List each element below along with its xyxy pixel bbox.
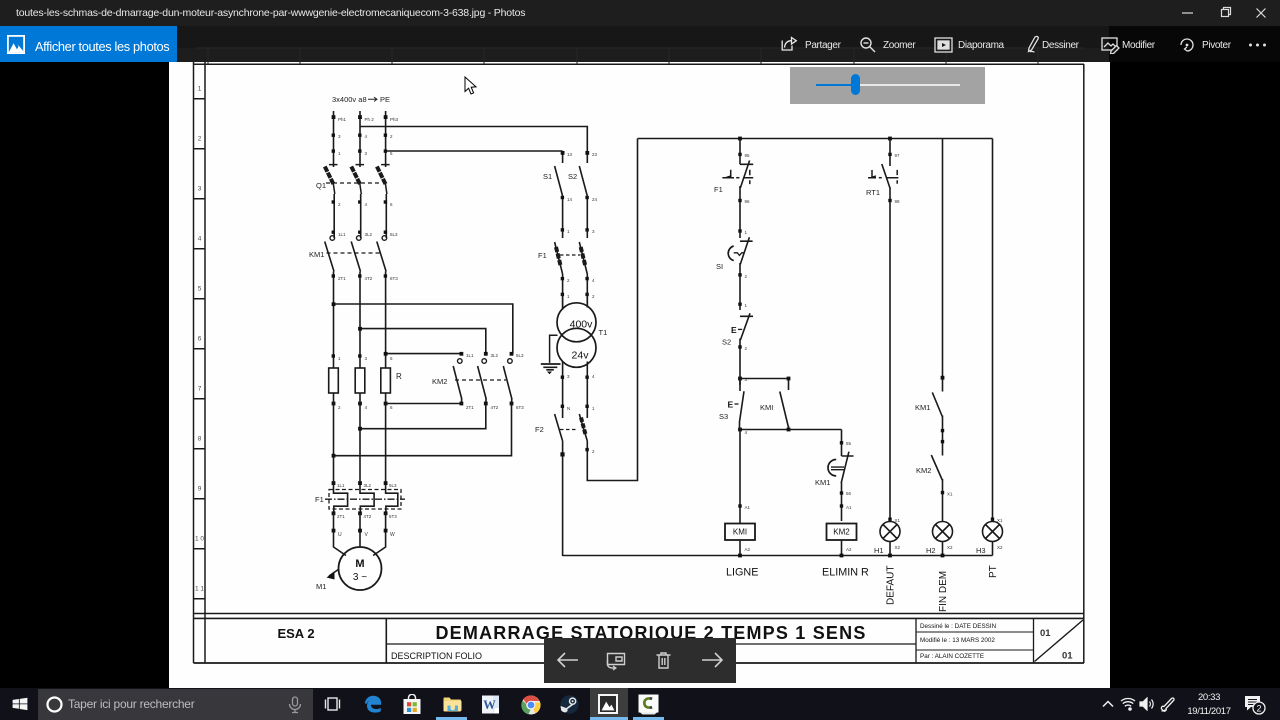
wire: L2 junction to KM2 pole2 top — [360, 329, 486, 354]
contactor KM2 (bypass poles) — [453, 359, 512, 404]
svg-text:1 0: 1 0 — [195, 536, 204, 543]
svg-text:H1: H1 — [874, 546, 884, 555]
svg-text:2: 2 — [745, 274, 748, 279]
svg-text:2T1: 2T1 — [338, 276, 346, 281]
svg-text:X1: X1 — [895, 518, 901, 523]
svg-text:3L2: 3L2 — [491, 353, 499, 358]
svg-text:4T2: 4T2 — [364, 514, 372, 519]
svg-text:4: 4 — [592, 374, 595, 379]
svg-text:3: 3 — [338, 134, 341, 139]
svg-text:5L3: 5L3 — [390, 232, 398, 237]
svg-text:6: 6 — [390, 202, 393, 207]
Store — [402, 694, 422, 715]
svg-text:ELIMIN R: ELIMIN R — [822, 567, 869, 579]
svg-text:RT1: RT1 — [866, 188, 880, 197]
svg-text:S1: S1 — [543, 172, 552, 181]
svg-text:M: M — [355, 558, 364, 570]
node supply label 3x400v a8-PE — [332, 95, 390, 104]
svg-text:W: W — [483, 698, 496, 712]
svg-text:DESCRIPTION FOLIO: DESCRIPTION FOLIO — [391, 651, 482, 661]
svg-text:KM2: KM2 — [432, 377, 447, 386]
svg-text:Q1: Q1 — [316, 181, 326, 190]
svg-text:1: 1 — [745, 230, 748, 235]
svg-text:X1: X1 — [947, 492, 953, 497]
wire: KM2 pole3 bottom loop — [334, 404, 512, 456]
svg-text:F1: F1 — [538, 251, 547, 260]
frame top line — [194, 63, 1085, 65]
contact RT1 (NC) — [868, 139, 898, 522]
fuse F2 (control, 2-pole) — [555, 139, 638, 557]
contact KM1 (NO, FIN DEM column) — [932, 139, 942, 456]
svg-text:1: 1 — [567, 294, 570, 299]
svg-text:A1: A1 — [745, 505, 751, 510]
ground PE arrow at motor — [327, 569, 340, 580]
svg-text:3: 3 — [365, 356, 368, 361]
svg-text:Ph 2: Ph 2 — [365, 117, 375, 122]
svg-text:24: 24 — [592, 197, 598, 202]
svg-text:F1: F1 — [315, 495, 324, 504]
wire: L3 junction to KM2 pole1 top — [386, 353, 462, 355]
svg-text:F1: F1 — [714, 185, 723, 194]
svg-text:SI: SI — [716, 262, 723, 271]
svg-text:3: 3 — [198, 186, 202, 193]
svg-text:X2: X2 — [895, 545, 901, 550]
frame right border — [1083, 64, 1085, 663]
relay F1 thermal overload — [325, 483, 405, 513]
lamp H1 (DEFAUT) — [880, 522, 900, 556]
svg-text:2: 2 — [338, 202, 341, 207]
svg-text:H2: H2 — [926, 546, 936, 555]
zoom slider flyout — [790, 67, 985, 104]
svg-text:S2: S2 — [568, 172, 577, 181]
svg-text:4T2: 4T2 — [491, 405, 499, 410]
svg-text:2T1: 2T1 — [337, 514, 345, 519]
svg-text:DEFAUT: DEFAUT — [886, 566, 897, 605]
svg-text:24v: 24v — [572, 350, 590, 362]
svg-text:W: W — [390, 532, 395, 538]
svg-text:3L2: 3L2 — [364, 483, 372, 488]
svg-text:Modifié le : 13 MARS 2002: Modifié le : 13 MARS 2002 — [920, 637, 995, 644]
svg-text:1: 1 — [567, 229, 570, 234]
svg-text:2: 2 — [745, 346, 748, 351]
button SI (stop, NC) — [728, 237, 752, 310]
wire A: phase L3 to S1 column — [386, 150, 563, 152]
svg-text:5: 5 — [390, 356, 393, 361]
svg-text:6T3: 6T3 — [390, 276, 398, 281]
contact KM1 (self-hold, NO) — [780, 392, 789, 430]
svg-text:9: 9 — [198, 486, 202, 493]
clock — [1184, 691, 1234, 717]
faint photo visible through translucent app bar — [0, 26, 1109, 62]
svg-text:1 1: 1 1 — [195, 586, 204, 593]
svg-text:E: E — [728, 400, 734, 410]
transformer T1 400v/24v — [557, 294, 596, 418]
frame left border — [194, 62, 206, 663]
svg-text:23: 23 — [592, 152, 598, 157]
svg-text:400v: 400v — [570, 319, 594, 331]
svg-text:KM1: KM1 — [915, 403, 930, 412]
tray wifi — [1120, 697, 1136, 711]
svg-text:4: 4 — [198, 236, 202, 243]
frame row numbers — [195, 86, 204, 593]
svg-text:A2: A2 — [745, 547, 751, 552]
svg-text:KMI: KMI — [760, 403, 773, 412]
wire: KM2 pole1 bottom to R3 bottom — [334, 404, 512, 456]
app bar commands — [0, 0, 1, 1]
coil KM1 — [725, 430, 755, 556]
svg-text:N: N — [567, 406, 570, 411]
svg-text:F2: F2 — [535, 425, 544, 434]
svg-text:KM1: KM1 — [815, 478, 830, 487]
svg-text:4: 4 — [592, 278, 595, 283]
svg-text:4: 4 — [365, 405, 368, 410]
Edge — [364, 695, 382, 713]
ground (transformer shield) — [541, 335, 561, 374]
svg-text:01: 01 — [1040, 628, 1051, 639]
svg-text:55: 55 — [846, 441, 852, 446]
switch S1 (aux, left column) — [555, 153, 563, 230]
contact KM1 (timed, to KM2 coil) — [828, 430, 853, 522]
frame row ticks — [194, 99, 206, 599]
svg-text:1: 1 — [198, 86, 202, 93]
svg-text:KMI: KMI — [733, 528, 747, 537]
svg-text:5: 5 — [198, 286, 202, 293]
svg-text:A1: A1 — [846, 505, 852, 510]
svg-text:Ph1: Ph1 — [338, 117, 347, 122]
svg-text:KM1: KM1 — [309, 250, 324, 259]
svg-text:2: 2 — [592, 294, 595, 299]
svg-text:01: 01 — [1062, 651, 1073, 662]
svg-text:8: 8 — [198, 436, 202, 443]
svg-text:6T3: 6T3 — [389, 514, 397, 519]
contactor KM1 (power poles) — [325, 236, 387, 368]
svg-text:95: 95 — [745, 153, 751, 158]
svg-text:E: E — [731, 325, 737, 335]
svg-text:7: 7 — [198, 386, 202, 393]
svg-text:H3: H3 — [976, 546, 986, 555]
Photos (active) — [590, 688, 628, 720]
svg-text:2: 2 — [567, 278, 570, 283]
svg-text:1L1: 1L1 — [466, 353, 474, 358]
svg-text:M1: M1 — [316, 582, 326, 591]
svg-text:1: 1 — [338, 356, 341, 361]
svg-text:PE: PE — [380, 95, 390, 104]
svg-text:S2: S2 — [722, 338, 731, 347]
svg-text:3: 3 — [567, 374, 570, 379]
svg-text:56: 56 — [846, 491, 852, 496]
svg-text:T1: T1 — [599, 328, 608, 337]
svg-text:2T1: 2T1 — [466, 405, 474, 410]
coil KM2 — [827, 524, 857, 556]
motor M1 3~ — [334, 536, 386, 590]
svg-text:3: 3 — [365, 151, 368, 156]
frame column ticks — [208, 62, 1038, 64]
breaker Q1 — [325, 165, 390, 238]
wire: L1 junction to KM2 pole3 top — [334, 304, 513, 354]
button S2 (NC with E mark) — [738, 313, 753, 385]
svg-text:1: 1 — [745, 303, 748, 308]
task view — [324, 697, 341, 711]
svg-text:4: 4 — [365, 134, 368, 139]
svg-text:1: 1 — [592, 406, 595, 411]
wire S3/KM1 parallel branch — [740, 379, 842, 430]
svg-text:4: 4 — [365, 202, 368, 207]
node junction dots — [332, 302, 388, 355]
svg-text:U: U — [338, 532, 342, 538]
svg-text:6T3: 6T3 — [516, 405, 524, 410]
svg-text:5L3: 5L3 — [516, 353, 524, 358]
wire phase L3 vertical top — [385, 111, 387, 167]
svg-text:PT: PT — [988, 565, 999, 578]
svg-text:R: R — [396, 372, 402, 381]
bottom navigation overlay — [544, 638, 736, 683]
resistor R bank (3 phases) — [329, 368, 391, 393]
svg-text:KM2: KM2 — [833, 528, 850, 537]
svg-text:3: 3 — [592, 229, 595, 234]
svg-text:2: 2 — [338, 405, 341, 410]
svg-text:V: V — [365, 532, 369, 538]
lamp H3 (PT) — [983, 139, 1003, 556]
wire top bus of control loop — [563, 139, 993, 556]
Camtasia — [633, 717, 664, 720]
tray speaker — [1139, 697, 1155, 711]
svg-text:5L3: 5L3 — [389, 483, 397, 488]
wire bottom bus of control loop — [563, 555, 993, 557]
svg-text:Dessiné le : DATE DESSIN: Dessiné le : DATE DESSIN — [920, 623, 997, 630]
fuse F1 (control, 2-pole) — [555, 230, 588, 294]
svg-text:2: 2 — [1256, 704, 1261, 714]
Steam — [560, 695, 579, 714]
svg-text:X2: X2 — [997, 545, 1003, 550]
svg-text:2: 2 — [592, 449, 595, 454]
wire phase L2 vertical top — [359, 111, 361, 167]
svg-text:X2: X2 — [947, 545, 953, 550]
wire: KM2 pole2 bottom loop — [360, 404, 486, 429]
contact F1 (thermal relay trip, NC) — [722, 139, 753, 239]
svg-text:6: 6 — [390, 405, 393, 410]
button S3 (start, NO with E mark) — [735, 379, 745, 430]
svg-text:LIGNE: LIGNE — [726, 567, 758, 579]
wire F1 to motor terminals — [334, 513, 386, 536]
svg-text:3 ~: 3 ~ — [353, 572, 367, 583]
svg-text:98: 98 — [895, 199, 901, 204]
svg-text:Par : ALAIN COZETTE: Par : ALAIN COZETTE — [920, 653, 984, 660]
svg-text:FIN DEM: FIN DEM — [938, 571, 949, 612]
Word — [481, 695, 500, 714]
svg-text:2: 2 — [198, 136, 202, 143]
svg-text:Ph3: Ph3 — [390, 117, 399, 122]
tray chevron — [1101, 699, 1115, 709]
svg-text:4T2: 4T2 — [365, 276, 373, 281]
action center — [1244, 695, 1266, 715]
node terminals Ph1 Ph2 Ph3 — [332, 115, 388, 153]
svg-text:97: 97 — [895, 153, 901, 158]
svg-text:3L2: 3L2 — [365, 232, 373, 237]
svg-text:1: 1 — [338, 151, 341, 156]
svg-text:4: 4 — [745, 430, 748, 435]
wire B: phase L2 to S2 column — [360, 127, 587, 152]
svg-text:6: 6 — [198, 336, 202, 343]
svg-text:2: 2 — [390, 134, 393, 139]
mouse cursor — [464, 76, 478, 96]
lamp H2 (FIN DEM) — [933, 522, 953, 556]
svg-text:1L1: 1L1 — [338, 232, 346, 237]
svg-text:96: 96 — [745, 199, 751, 204]
contact KM2 (NC, FIN DEM column) — [931, 455, 942, 521]
svg-text:14: 14 — [567, 197, 573, 202]
switch S2 (aux, right column) — [579, 153, 587, 230]
tray pen — [1160, 696, 1175, 712]
svg-text:13: 13 — [567, 152, 573, 157]
Chrome — [521, 695, 541, 715]
File Explorer — [443, 696, 462, 712]
wire phase L1 vertical top — [333, 111, 335, 167]
svg-text:S3: S3 — [719, 412, 728, 421]
svg-text:A2: A2 — [846, 547, 852, 552]
svg-text:3x400v a8: 3x400v a8 — [332, 95, 367, 104]
svg-text:ESA 2: ESA 2 — [277, 626, 314, 641]
svg-text:KM2: KM2 — [916, 466, 931, 475]
svg-text:1L1: 1L1 — [337, 483, 345, 488]
svg-text:X1: X1 — [997, 518, 1003, 523]
